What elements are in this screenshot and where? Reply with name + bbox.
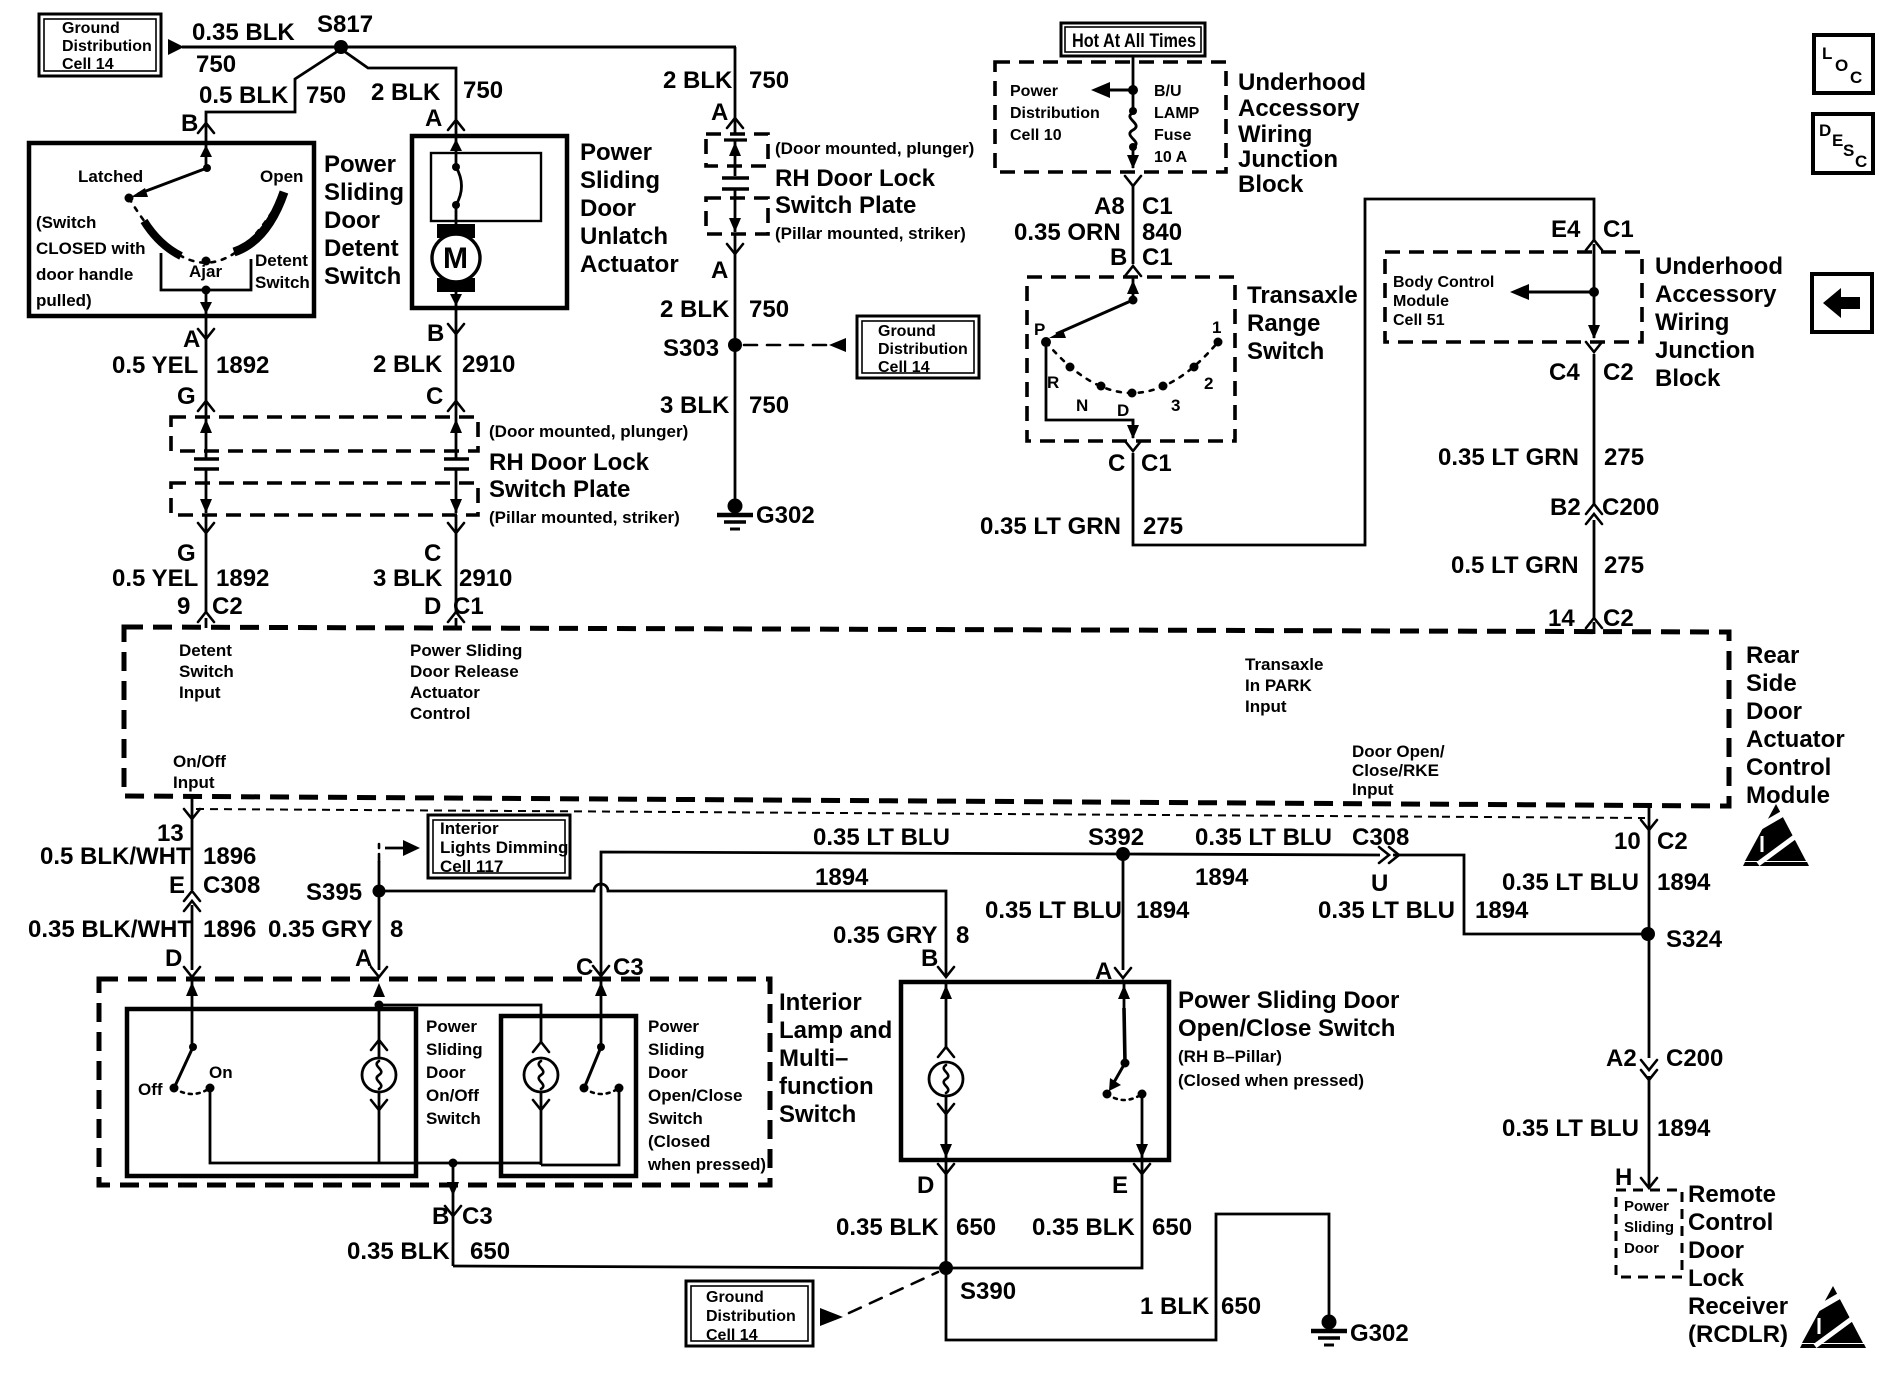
svg-text:1: 1 xyxy=(1212,318,1221,337)
svg-text:C1: C1 xyxy=(1603,216,1634,243)
svg-text:B: B xyxy=(427,320,444,347)
svg-text:Wiring: Wiring xyxy=(1238,121,1312,148)
svg-text:Ajar: Ajar xyxy=(189,262,222,281)
svg-text:H: H xyxy=(1615,1164,1632,1191)
range switch feed arrow xyxy=(1132,277,1135,299)
svg-text:750: 750 xyxy=(749,67,789,94)
svg-text:2 BLK: 2 BLK xyxy=(373,351,443,378)
svg-text:Transaxle: Transaxle xyxy=(1247,282,1358,309)
svg-text:C2: C2 xyxy=(1657,828,1688,855)
splice S392 xyxy=(1116,847,1130,861)
svg-text:1894: 1894 xyxy=(1657,1115,1711,1142)
svg-text:0.5 BLK/WHT: 0.5 BLK/WHT xyxy=(40,843,191,870)
svg-text:Switch: Switch xyxy=(426,1109,481,1128)
svg-text:750: 750 xyxy=(306,82,346,109)
LOC navigation box xyxy=(1814,35,1873,93)
svg-text:Junction: Junction xyxy=(1238,146,1338,173)
thick arc segment left xyxy=(144,221,181,256)
svg-text:P: P xyxy=(1034,320,1045,339)
svg-text:750: 750 xyxy=(196,51,236,78)
svg-text:1894: 1894 xyxy=(1136,897,1190,924)
svg-text:LAMP: LAMP xyxy=(1154,105,1200,122)
body control module cell 51 dashed box xyxy=(1385,252,1642,342)
back arrow navigation box xyxy=(1812,274,1872,332)
splice S324 xyxy=(1641,927,1655,941)
svg-text:Switch: Switch xyxy=(648,1109,703,1128)
leader S303 to ground distribution xyxy=(744,344,828,347)
svg-text:Power Sliding: Power Sliding xyxy=(410,641,522,660)
svg-text:C2: C2 xyxy=(212,593,243,620)
svg-text:G: G xyxy=(177,540,196,567)
svg-text:(Closed: (Closed xyxy=(648,1132,710,1151)
on/off switch inner box xyxy=(127,1009,416,1176)
svg-text:RH Door Lock: RH Door Lock xyxy=(489,449,650,476)
svg-text:Door: Door xyxy=(1688,1237,1744,1264)
svg-text:1894: 1894 xyxy=(1475,897,1529,924)
svg-text:Switch: Switch xyxy=(779,1101,856,1128)
svg-text:E: E xyxy=(169,872,185,899)
off contact xyxy=(170,1084,179,1093)
svg-text:S392: S392 xyxy=(1088,824,1144,851)
svg-text:G302: G302 xyxy=(1350,1320,1409,1347)
svg-text:0.35 LT BLU: 0.35 LT BLU xyxy=(1502,869,1639,896)
svg-text:Wiring: Wiring xyxy=(1655,309,1729,336)
transaxle range switch dashed box xyxy=(1027,277,1235,441)
svg-text:Cell 14: Cell 14 xyxy=(878,359,930,376)
svg-text:(RH B–Pillar): (RH B–Pillar) xyxy=(1178,1047,1282,1066)
svg-text:Open/Close Switch: Open/Close Switch xyxy=(1178,1015,1395,1042)
svg-text:0.35 LT BLU: 0.35 LT BLU xyxy=(1195,824,1332,851)
svg-text:N: N xyxy=(1076,396,1088,415)
svg-text:E: E xyxy=(1112,1172,1128,1199)
svg-text:14: 14 xyxy=(1548,605,1575,632)
svg-text:Distribution: Distribution xyxy=(878,341,968,358)
svg-text:0.35 LT GRN: 0.35 LT GRN xyxy=(1438,444,1579,471)
svg-text:Door: Door xyxy=(1746,698,1802,725)
actuator entry arrow xyxy=(455,136,458,166)
connector C C1 xyxy=(1125,441,1141,451)
svg-text:Cell 14: Cell 14 xyxy=(62,56,114,73)
svg-text:(Door mounted, plunger): (Door mounted, plunger) xyxy=(775,139,974,158)
range switch pivot xyxy=(1129,296,1138,305)
svg-text:(RCDLR): (RCDLR) xyxy=(1688,1321,1788,1348)
svg-text:0.35 LT BLU: 0.35 LT BLU xyxy=(1318,897,1455,924)
svg-text:0.35 BLK/WHT: 0.35 BLK/WHT xyxy=(28,916,192,943)
svg-text:RH Door Lock: RH Door Lock xyxy=(775,165,936,192)
svg-text:Underhood: Underhood xyxy=(1238,69,1366,96)
svg-text:8: 8 xyxy=(956,922,969,949)
svg-text:Junction: Junction xyxy=(1655,337,1755,364)
svg-text:Sliding: Sliding xyxy=(1624,1219,1674,1236)
svg-text:Switch Plate: Switch Plate xyxy=(775,192,916,219)
svg-text:C1: C1 xyxy=(1141,450,1172,477)
svg-text:Hot At All Times: Hot At All Times xyxy=(1072,31,1196,52)
wire D to S390 0.35 BLK 650 xyxy=(945,1160,948,1268)
svg-text:A: A xyxy=(425,105,442,132)
svg-text:Module: Module xyxy=(1746,782,1830,809)
svg-text:9: 9 xyxy=(177,593,190,620)
svg-text:C308: C308 xyxy=(203,872,260,899)
svg-text:Accessory: Accessory xyxy=(1238,95,1360,122)
ESD warning symbol (module) xyxy=(1741,804,1809,866)
svg-text:when pressed): when pressed) xyxy=(647,1155,766,1174)
ground distribution cell 14 reference box (bottom) xyxy=(686,1281,813,1346)
power sliding door unlatch actuator box xyxy=(412,136,567,308)
svg-text:10 A: 10 A xyxy=(1154,149,1188,166)
svg-text:0.35 GRY: 0.35 GRY xyxy=(268,916,373,943)
wire C pin into open/close switch xyxy=(600,979,603,1046)
svg-text:Actuator: Actuator xyxy=(580,251,679,278)
svg-text:door handle: door handle xyxy=(36,265,133,284)
node feed arrow to power distribution xyxy=(1128,85,1138,95)
svg-text:750: 750 xyxy=(749,296,789,323)
svg-text:0.35 BLK: 0.35 BLK xyxy=(836,1214,939,1241)
fuse B/U LAMP 10A xyxy=(1127,107,1139,169)
svg-text:0.5 YEL: 0.5 YEL xyxy=(112,565,198,592)
detent switch output wire xyxy=(205,290,208,314)
svg-text:2910: 2910 xyxy=(462,351,515,378)
svg-text:C3: C3 xyxy=(462,1203,493,1230)
latched contact xyxy=(125,194,134,203)
svg-text:0.35 ORN: 0.35 ORN xyxy=(1014,219,1121,246)
svg-text:A: A xyxy=(355,945,372,972)
svg-text:Detent: Detent xyxy=(179,641,232,660)
svg-text:(Door mounted, plunger): (Door mounted, plunger) xyxy=(489,422,688,441)
svg-text:Control: Control xyxy=(410,704,470,723)
svg-text:S: S xyxy=(1843,141,1854,160)
RH door lock switch plate (left, dashed bands) xyxy=(171,417,478,515)
svg-text:2 BLK: 2 BLK xyxy=(660,296,730,323)
bus node and B C3 output xyxy=(449,1159,458,1168)
rear side door actuator control module (dashed box) xyxy=(124,627,1729,806)
actuator output arrow xyxy=(455,292,458,306)
wire hot feed into junction block xyxy=(1132,56,1135,110)
wire lamp feed to lamp 2 xyxy=(379,1005,541,1042)
svg-text:1892: 1892 xyxy=(216,352,269,379)
svg-text:Cell 14: Cell 14 xyxy=(706,1327,758,1344)
wire S817 to B (0.5 BLK 750) xyxy=(206,49,341,143)
svg-text:C: C xyxy=(426,383,443,410)
actuator solenoid frame xyxy=(431,153,541,221)
thick arc segment right xyxy=(234,192,284,252)
wire 2 BLK 2910 xyxy=(455,308,458,417)
svg-text:0.35 LT BLU: 0.35 LT BLU xyxy=(985,897,1122,924)
wire E to S390 0.35 BLK 650 xyxy=(946,1160,1142,1268)
power sliding door dashed box (RCDLR) xyxy=(1616,1190,1682,1277)
svg-text:Sliding: Sliding xyxy=(324,179,404,206)
svg-text:Door: Door xyxy=(648,1063,688,1082)
svg-text:0.35 LT BLU: 0.35 LT BLU xyxy=(1502,1115,1639,1142)
svg-text:Ground: Ground xyxy=(878,323,936,340)
svg-text:On/Off: On/Off xyxy=(173,752,226,771)
svg-text:E: E xyxy=(1832,131,1843,150)
connector C2 face (fine dashed leader) xyxy=(196,809,1645,818)
wire 2 BLK 750 to S303 xyxy=(734,234,737,502)
svg-text:Interior: Interior xyxy=(779,989,862,1016)
svg-text:1896: 1896 xyxy=(203,916,256,943)
svg-text:Off: Off xyxy=(138,1080,163,1099)
svg-text:Multi–: Multi– xyxy=(779,1045,848,1072)
leader S390 to ground distribution xyxy=(849,1272,938,1313)
svg-text:650: 650 xyxy=(1221,1293,1261,1320)
ground distribution cell 14 reference box (top left) xyxy=(39,14,161,76)
middle plunger contact xyxy=(722,140,749,232)
svg-text:A8: A8 xyxy=(1094,193,1125,220)
svg-text:B/U: B/U xyxy=(1154,83,1182,100)
svg-text:C2: C2 xyxy=(1603,605,1634,632)
svg-text:Detent: Detent xyxy=(255,251,308,270)
svg-text:0.35 BLK: 0.35 BLK xyxy=(1032,1214,1135,1241)
interior lights dimming cell 117 box xyxy=(428,815,570,878)
svg-text:C2: C2 xyxy=(1603,359,1634,386)
svg-text:(Switch: (Switch xyxy=(36,213,96,232)
svg-text:Latched: Latched xyxy=(78,167,143,186)
svg-text:Input: Input xyxy=(173,773,215,792)
svg-text:S324: S324 xyxy=(1666,926,1723,953)
svg-text:D: D xyxy=(917,1172,934,1199)
svg-text:3: 3 xyxy=(1171,396,1180,415)
svg-text:Distribution: Distribution xyxy=(706,1308,796,1325)
svg-text:CLOSED with: CLOSED with xyxy=(36,239,146,258)
dashed contact arc xyxy=(1046,342,1218,393)
wire 0.5 YEL 1892 (lower) xyxy=(205,515,208,612)
svg-text:Side: Side xyxy=(1746,670,1797,697)
svg-text:Rear: Rear xyxy=(1746,642,1799,669)
detent switch arm to Latched xyxy=(138,168,207,194)
wire right contact to bottom bus xyxy=(541,1088,619,1165)
splice S395 leader to interior lights dimming xyxy=(378,861,381,891)
svg-text:Remote: Remote xyxy=(1688,1181,1776,1208)
svg-text:A: A xyxy=(711,99,728,126)
svg-text:750: 750 xyxy=(463,77,503,104)
on/off dashed arc xyxy=(174,1088,210,1094)
svg-text:Input: Input xyxy=(1352,780,1394,799)
arrow from ground distribution box xyxy=(168,39,184,55)
ground G302 (middle) xyxy=(717,499,815,530)
svg-text:Input: Input xyxy=(1245,697,1287,716)
lamp 3 (B-pillar switch illumination) xyxy=(945,982,948,1047)
svg-text:Distribution: Distribution xyxy=(62,38,152,55)
ajar contact xyxy=(202,257,211,266)
svg-text:U: U xyxy=(1371,870,1388,897)
svg-text:Cell 117: Cell 117 xyxy=(440,857,503,876)
svg-text:Cell 10: Cell 10 xyxy=(1010,127,1062,144)
svg-text:G: G xyxy=(177,383,196,410)
svg-text:In PARK: In PARK xyxy=(1245,676,1312,695)
wire 0.35 BLK/WHT 1896 xyxy=(191,905,194,970)
svg-text:Unlatch: Unlatch xyxy=(580,223,668,250)
B-pillar switch contact xyxy=(1123,982,1126,1010)
wire on contact to bottom bus xyxy=(210,1088,453,1163)
svg-text:Ground: Ground xyxy=(706,1289,764,1306)
power sliding door open/close switch box (RH B-pillar) xyxy=(901,982,1169,1160)
svg-text:8: 8 xyxy=(390,916,403,943)
svg-text:B: B xyxy=(921,945,938,972)
svg-text:Switch: Switch xyxy=(1247,338,1324,365)
connector A8 C1 xyxy=(1125,176,1141,186)
svg-text:S395: S395 xyxy=(306,879,362,906)
svg-text:Power: Power xyxy=(1010,83,1058,100)
svg-text:10: 10 xyxy=(1614,828,1641,855)
svg-text:S817: S817 xyxy=(317,11,373,38)
svg-text:0.5 YEL: 0.5 YEL xyxy=(112,352,198,379)
svg-text:A: A xyxy=(711,257,728,284)
wire 0.35 ORN 840 xyxy=(1132,186,1135,264)
dashed travel arc xyxy=(129,198,272,263)
svg-text:C200: C200 xyxy=(1666,1045,1723,1072)
svg-text:M: M xyxy=(443,242,468,275)
ground distribution cell 14 reference box (middle) xyxy=(857,316,979,378)
svg-text:0.35 LT BLU: 0.35 LT BLU xyxy=(813,824,950,851)
svg-text:0.35 BLK: 0.35 BLK xyxy=(192,19,295,46)
wire 3 BLK 2910 xyxy=(455,515,458,612)
svg-text:Sliding: Sliding xyxy=(580,167,660,194)
svg-text:(Closed when pressed): (Closed when pressed) xyxy=(1178,1071,1364,1090)
svg-text:Interior: Interior xyxy=(440,819,499,838)
svg-text:Power: Power xyxy=(1624,1198,1669,1215)
svg-text:Ground: Ground xyxy=(62,20,120,37)
wire 0.35 LT BLU 1894 long run to C xyxy=(601,852,1123,976)
DESC navigation box xyxy=(1813,114,1873,173)
svg-text:Input: Input xyxy=(179,683,221,702)
svg-text:Underhood: Underhood xyxy=(1655,253,1783,280)
wire switch output to E xyxy=(1141,1094,1144,1160)
motor M brushes xyxy=(437,224,475,238)
svg-text:(Pillar mounted, striker): (Pillar mounted, striker) xyxy=(775,224,966,243)
svg-text:Actuator: Actuator xyxy=(410,683,480,702)
wire S395 to B-pillar switch (0.35 GRY 8) with hop xyxy=(379,884,946,976)
svg-text:Module: Module xyxy=(1393,293,1449,310)
RH door lock switch plate (middle, dashed bands) xyxy=(706,134,768,234)
on/off switch arm xyxy=(189,1043,197,1051)
svg-text:A2: A2 xyxy=(1606,1045,1637,1072)
svg-text:Door: Door xyxy=(426,1063,466,1082)
svg-text:Power: Power xyxy=(580,139,652,166)
wire through junction block xyxy=(1593,244,1596,338)
node arrow to body control module xyxy=(1589,287,1599,297)
svg-text:275: 275 xyxy=(1604,444,1644,471)
ground G302 (bottom) xyxy=(1311,1315,1409,1348)
svg-text:O: O xyxy=(1835,56,1848,75)
plunger contact (actuator column) xyxy=(444,417,469,513)
svg-text:Door: Door xyxy=(580,195,636,222)
node above lamp 1 xyxy=(375,1001,384,1010)
svg-text:750: 750 xyxy=(749,392,789,419)
solenoid contact xyxy=(452,163,460,171)
interior lamp and multifunction switch dashed box xyxy=(99,979,770,1185)
svg-text:2: 2 xyxy=(1204,374,1213,393)
wire 0.5 LT GRN 275 xyxy=(1593,520,1596,618)
svg-text:Close/RKE: Close/RKE xyxy=(1352,761,1439,780)
splice S395 xyxy=(373,885,386,898)
wire S392 to C308 and S324 xyxy=(1123,854,1380,855)
svg-text:Fuse: Fuse xyxy=(1154,127,1191,144)
svg-text:pulled): pulled) xyxy=(36,291,92,310)
svg-text:B: B xyxy=(1110,244,1127,271)
svg-text:1 BLK: 1 BLK xyxy=(1140,1293,1210,1320)
wire 2 BLK 750 (middle column top) xyxy=(734,47,737,134)
svg-text:Open: Open xyxy=(260,167,303,186)
on contact xyxy=(206,1084,215,1093)
open/close switch arm xyxy=(597,1043,605,1051)
svg-text:(Pillar mounted, striker): (Pillar mounted, striker) xyxy=(489,508,680,527)
wire 0.35 LT GRN 275 (right) xyxy=(1593,354,1596,505)
svg-text:Control: Control xyxy=(1746,754,1831,781)
svg-text:Door Open/: Door Open/ xyxy=(1352,742,1445,761)
svg-text:C4: C4 xyxy=(1549,359,1580,386)
svg-text:G302: G302 xyxy=(756,502,815,529)
splice S817 xyxy=(334,40,348,54)
svg-text:C200: C200 xyxy=(1602,494,1659,521)
wire 0.35 LT GRN 275 to junction block xyxy=(1133,199,1594,545)
svg-text:1896: 1896 xyxy=(203,843,256,870)
svg-text:650: 650 xyxy=(1152,1214,1192,1241)
svg-text:Door: Door xyxy=(324,207,380,234)
svg-text:Lock: Lock xyxy=(1688,1265,1745,1292)
svg-text:D: D xyxy=(165,945,182,972)
hot at all times box xyxy=(1061,23,1205,56)
svg-text:S303: S303 xyxy=(663,335,719,362)
svg-text:C1: C1 xyxy=(1142,193,1173,220)
svg-text:275: 275 xyxy=(1143,513,1183,540)
svg-text:Lights Dimming: Lights Dimming xyxy=(440,838,568,857)
svg-text:0.5 LT GRN: 0.5 LT GRN xyxy=(1451,552,1579,579)
svg-text:2 BLK: 2 BLK xyxy=(371,79,441,106)
detent switch internal: entry arrow xyxy=(205,143,208,167)
svg-text:Distribution: Distribution xyxy=(1010,105,1100,122)
svg-text:1894: 1894 xyxy=(815,864,869,891)
lamp 1 (on/off illumination) xyxy=(378,1008,381,1058)
svg-text:Sliding: Sliding xyxy=(648,1040,705,1059)
svg-text:Power: Power xyxy=(426,1017,477,1036)
motor M xyxy=(432,234,480,282)
wire S817 to A (2 BLK 750) xyxy=(341,49,456,136)
svg-text:275: 275 xyxy=(1604,552,1644,579)
svg-text:650: 650 xyxy=(956,1214,996,1241)
svg-text:Transaxle: Transaxle xyxy=(1245,655,1323,674)
svg-text:0.35 BLK: 0.35 BLK xyxy=(347,1238,450,1265)
svg-text:650: 650 xyxy=(470,1238,510,1265)
svg-text:1892: 1892 xyxy=(216,565,269,592)
contact P xyxy=(1041,337,1051,347)
svg-text:B2: B2 xyxy=(1550,494,1581,521)
power sliding door detent switch box xyxy=(29,143,314,316)
wire 0.35 GRY 8 (S395 to A) xyxy=(378,891,381,970)
svg-text:Control: Control xyxy=(1688,1209,1773,1236)
svg-text:0.5 BLK: 0.5 BLK xyxy=(199,82,289,109)
range switch output from P xyxy=(1046,345,1133,424)
svg-text:Actuator: Actuator xyxy=(1746,726,1845,753)
svg-text:B: B xyxy=(181,110,198,137)
svg-text:Switch: Switch xyxy=(324,263,401,290)
splice S390 xyxy=(939,1261,953,1275)
svg-text:3 BLK: 3 BLK xyxy=(373,565,443,592)
svg-text:Door Release: Door Release xyxy=(410,662,519,681)
svg-text:Block: Block xyxy=(1655,365,1721,392)
power distribution cell 10 dashed box xyxy=(995,62,1226,172)
svg-text:Switch: Switch xyxy=(255,273,310,292)
range switch arm to P xyxy=(1056,300,1133,334)
svg-text:On/Off: On/Off xyxy=(426,1086,479,1105)
wire 0.35 LT BLU 1894 to RCDLR xyxy=(1648,1076,1651,1186)
range switch contact arc dots R N D 3 2 1 xyxy=(1066,363,1075,372)
svg-text:840: 840 xyxy=(1142,219,1182,246)
svg-text:On: On xyxy=(209,1063,233,1082)
svg-text:C1: C1 xyxy=(1142,244,1173,271)
wire 0.35 LT BLU 1894 step to S324 xyxy=(1393,855,1648,934)
lamp 2 (open/close illumination) xyxy=(533,1042,549,1052)
svg-text:Switch Plate: Switch Plate xyxy=(489,476,630,503)
